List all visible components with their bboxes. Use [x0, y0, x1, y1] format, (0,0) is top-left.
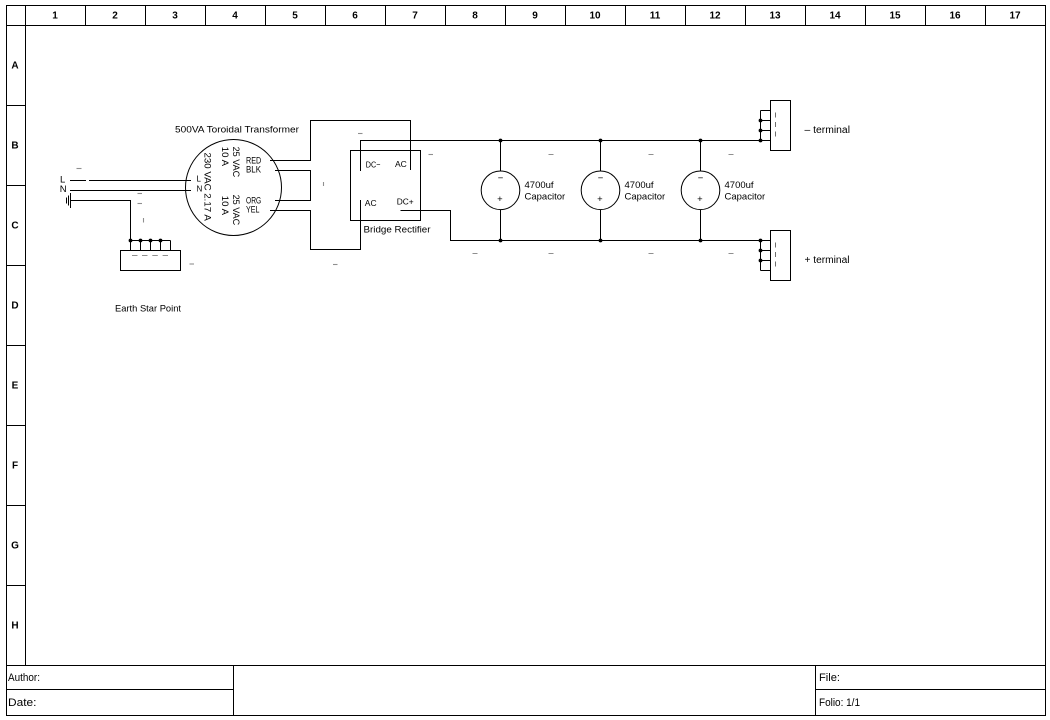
svg-text:H: H [11, 621, 18, 632]
svg-text:7: 7 [412, 11, 418, 22]
svg-text:−: − [598, 173, 604, 184]
svg-text:16: 16 [949, 11, 961, 22]
svg-text:10 A: 10 A [219, 196, 230, 216]
svg-text:3: 3 [172, 11, 178, 22]
svg-text:25 VAC: 25 VAC [230, 195, 241, 226]
svg-text:YEL: YEL [246, 205, 260, 216]
svg-text:230 VAC 2.17 A: 230 VAC 2.17 A [202, 153, 213, 222]
svg-text:11: 11 [650, 11, 661, 22]
svg-text:9: 9 [532, 11, 538, 22]
svg-text:5: 5 [292, 11, 298, 22]
svg-text:– terminal: – terminal [805, 125, 851, 136]
svg-text:File:: File: [819, 672, 840, 684]
svg-text:Capacitor: Capacitor [525, 192, 566, 203]
svg-text:Folio: 1/1: Folio: 1/1 [819, 697, 860, 709]
svg-text:25 VAC: 25 VAC [230, 147, 241, 178]
svg-text:AC: AC [395, 159, 407, 169]
svg-text:15: 15 [889, 11, 901, 22]
svg-text:12: 12 [709, 11, 721, 22]
svg-text:A: A [11, 61, 18, 72]
svg-text:2: 2 [112, 11, 118, 22]
svg-text:DC−: DC− [366, 160, 381, 170]
svg-text:13: 13 [769, 11, 781, 22]
svg-text:Capacitor: Capacitor [725, 192, 766, 203]
svg-text:10: 10 [589, 11, 601, 22]
svg-text:500VA Toroidal Transformer: 500VA Toroidal Transformer [175, 125, 299, 136]
svg-text:C: C [11, 221, 18, 232]
svg-text:6: 6 [352, 11, 358, 22]
svg-text:BLK: BLK [246, 165, 262, 176]
svg-text:F: F [12, 461, 18, 472]
svg-text:Capacitor: Capacitor [625, 192, 666, 203]
svg-text:E: E [12, 381, 19, 392]
svg-text:Earth Star Point: Earth Star Point [115, 304, 181, 315]
svg-text:+: + [597, 194, 603, 205]
svg-text:−: − [498, 173, 504, 184]
svg-text:B: B [11, 141, 18, 152]
svg-text:14: 14 [829, 11, 841, 22]
svg-text:+: + [497, 194, 503, 205]
svg-text:N: N [60, 184, 67, 195]
svg-text:17: 17 [1009, 11, 1021, 22]
svg-text:8: 8 [472, 11, 478, 22]
svg-text:D: D [11, 301, 18, 312]
svg-text:AC: AC [365, 198, 377, 208]
svg-text:+ terminal: + terminal [805, 255, 850, 266]
svg-text:1: 1 [52, 11, 58, 22]
svg-text:N: N [197, 185, 203, 194]
svg-text:DC+: DC+ [397, 197, 414, 207]
svg-text:4700uf: 4700uf [625, 180, 654, 191]
svg-text:Date:: Date: [8, 697, 37, 709]
svg-text:10 A: 10 A [219, 147, 230, 167]
svg-text:L: L [197, 175, 202, 184]
svg-text:4700uf: 4700uf [525, 180, 554, 191]
svg-text:Bridge Rectifier: Bridge Rectifier [364, 225, 431, 236]
svg-text:4700uf: 4700uf [725, 180, 754, 191]
svg-text:G: G [11, 541, 19, 552]
svg-text:Author:: Author: [8, 672, 40, 684]
svg-text:−: − [698, 173, 704, 184]
svg-text:4: 4 [232, 11, 238, 22]
svg-text:+: + [697, 194, 703, 205]
